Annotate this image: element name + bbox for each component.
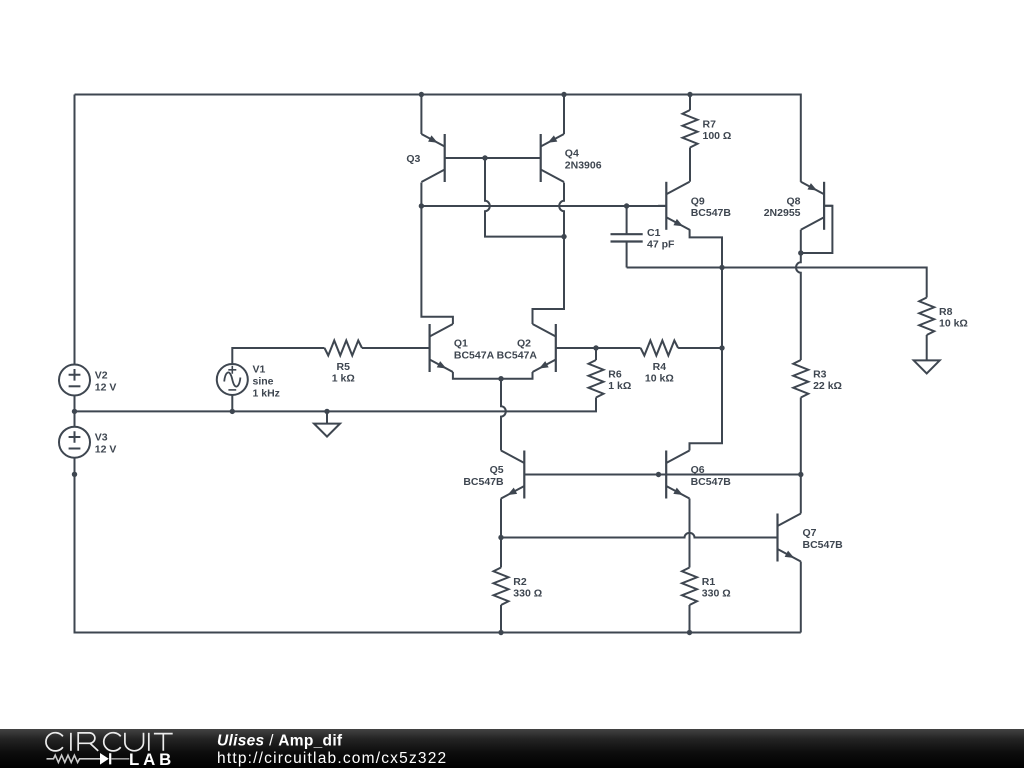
svg-text:R8: R8 bbox=[939, 306, 953, 318]
svg-text:BC547B: BC547B bbox=[803, 539, 844, 551]
svg-text:Q4: Q4 bbox=[565, 148, 579, 160]
svg-text:R6: R6 bbox=[608, 368, 622, 380]
svg-text:BC547B: BC547B bbox=[691, 476, 732, 488]
svg-text:V1: V1 bbox=[253, 364, 266, 376]
svg-text:R3: R3 bbox=[813, 368, 827, 380]
svg-text:330 Ω: 330 Ω bbox=[702, 588, 731, 600]
svg-text:10 kΩ: 10 kΩ bbox=[939, 318, 968, 330]
svg-text:22 kΩ: 22 kΩ bbox=[813, 380, 842, 392]
svg-text:R4: R4 bbox=[653, 361, 667, 373]
svg-text:10 kΩ: 10 kΩ bbox=[645, 373, 674, 385]
svg-text:R1: R1 bbox=[702, 576, 716, 588]
svg-text:1 kΩ: 1 kΩ bbox=[332, 373, 355, 385]
svg-text:LAB: LAB bbox=[129, 750, 175, 768]
svg-text:BC547B: BC547B bbox=[691, 207, 732, 219]
svg-text:Q6: Q6 bbox=[691, 464, 705, 476]
svg-text:100 Ω: 100 Ω bbox=[703, 130, 732, 142]
svg-text:2N2955: 2N2955 bbox=[764, 207, 801, 219]
svg-text:R2: R2 bbox=[513, 576, 527, 588]
svg-text:Q7: Q7 bbox=[803, 527, 817, 539]
svg-text:1 kHz: 1 kHz bbox=[253, 388, 280, 400]
svg-text:12 V: 12 V bbox=[95, 381, 117, 393]
svg-text:V2: V2 bbox=[95, 369, 108, 381]
svg-text:47 pF: 47 pF bbox=[647, 239, 675, 251]
svg-text:12 V: 12 V bbox=[95, 444, 117, 456]
svg-text:Q1: Q1 bbox=[454, 338, 468, 350]
svg-text:Q9: Q9 bbox=[691, 195, 705, 207]
svg-text:Q2: Q2 bbox=[517, 338, 531, 350]
svg-text:V3: V3 bbox=[95, 432, 108, 444]
svg-text:BC547B: BC547B bbox=[463, 476, 504, 488]
svg-text:330 Ω: 330 Ω bbox=[513, 588, 542, 600]
svg-text:sine: sine bbox=[253, 376, 274, 388]
svg-text:Q5: Q5 bbox=[490, 464, 504, 476]
svg-text:R5: R5 bbox=[337, 361, 351, 373]
svg-text:Ulises / Amp_dif: Ulises / Amp_dif bbox=[217, 733, 343, 750]
svg-text:BC547A BC547A: BC547A BC547A bbox=[454, 349, 537, 361]
svg-text:Q8: Q8 bbox=[786, 195, 800, 207]
svg-text:2N3906: 2N3906 bbox=[565, 159, 602, 171]
svg-text:Q3: Q3 bbox=[406, 153, 420, 165]
svg-text:1 kΩ: 1 kΩ bbox=[608, 380, 631, 392]
svg-text:R7: R7 bbox=[703, 118, 717, 130]
svg-text:http://circuitlab.com/cx5z322: http://circuitlab.com/cx5z322 bbox=[217, 750, 447, 767]
svg-text:C1: C1 bbox=[647, 227, 661, 239]
